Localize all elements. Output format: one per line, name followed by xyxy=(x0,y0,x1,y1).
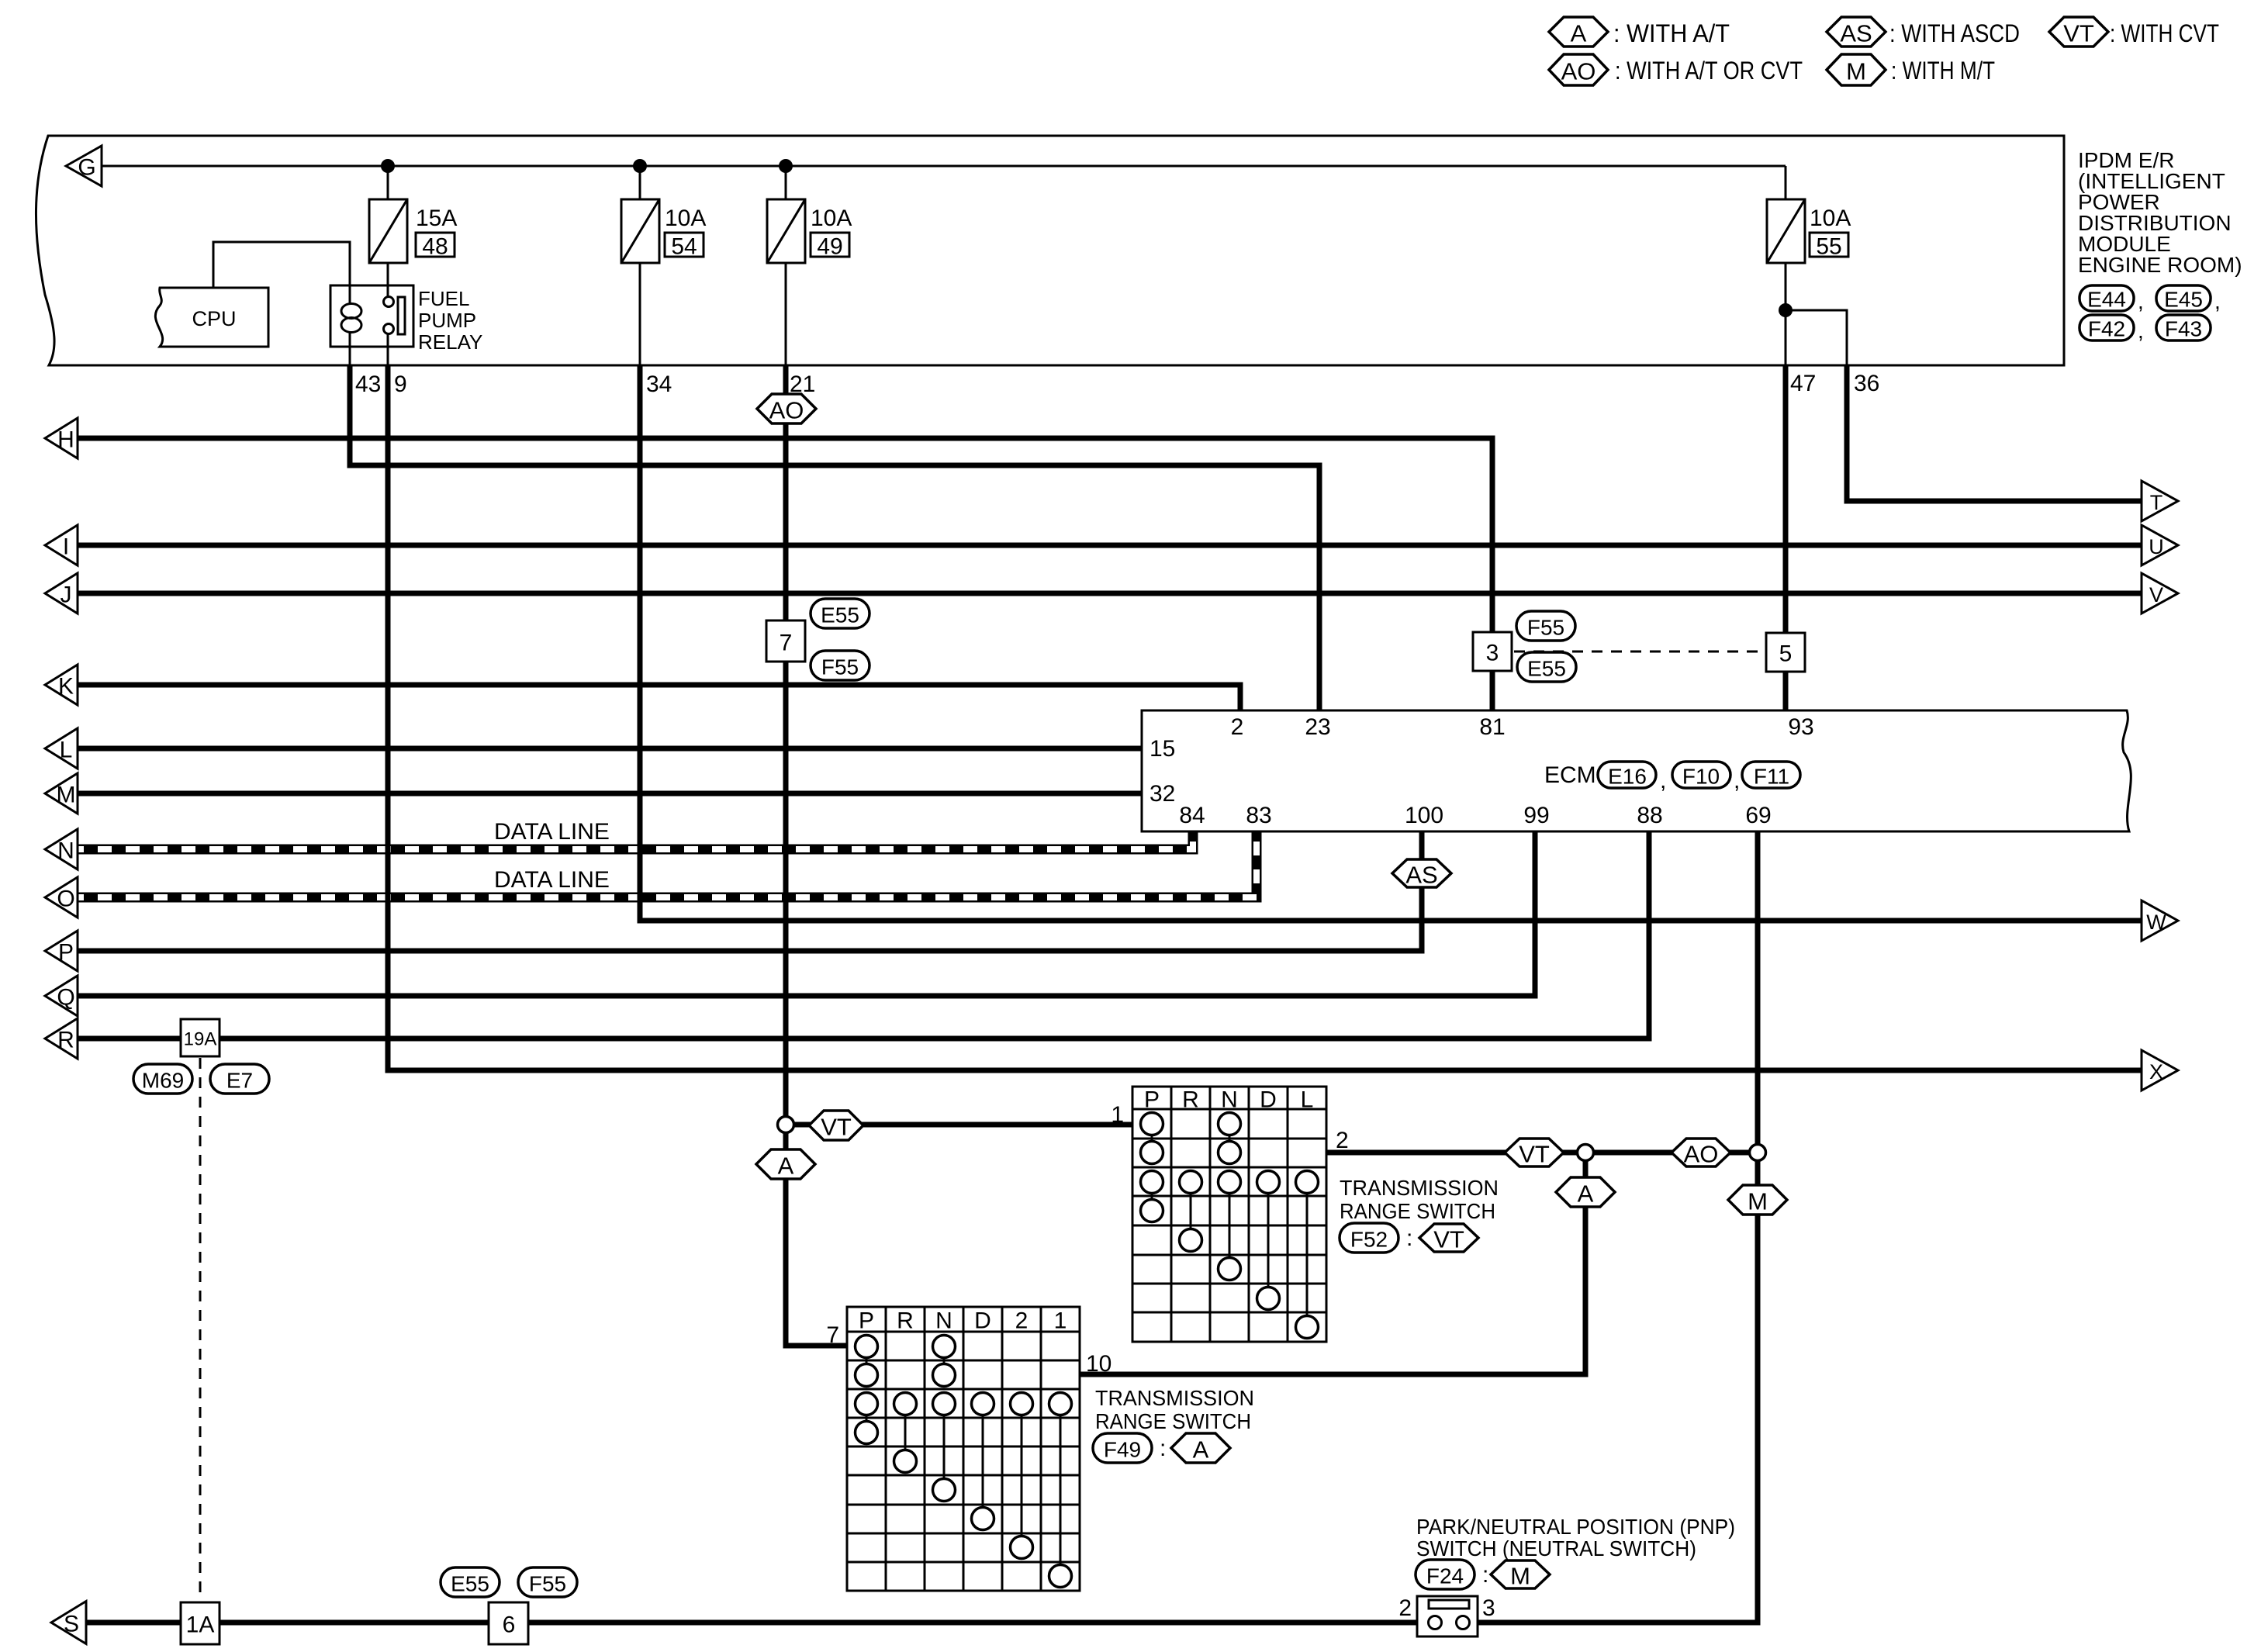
svg-text:DATA LINE: DATA LINE xyxy=(494,819,610,845)
IPDM comma 1 xyxy=(2138,289,2144,313)
svg-text:9: 9 xyxy=(394,372,407,397)
ECM pin 15 label xyxy=(1150,736,1175,762)
junction circle M branch xyxy=(1750,1145,1766,1161)
dashed link 19A to 1A xyxy=(199,1058,202,1601)
svg-text:10A: 10A xyxy=(811,206,852,231)
svg-text::: : xyxy=(1406,1225,1412,1251)
svg-text:U: U xyxy=(2149,535,2164,558)
svg-text:A: A xyxy=(1193,1436,1209,1464)
svg-text:84: 84 xyxy=(1179,803,1205,828)
svg-text::: : xyxy=(1160,1436,1166,1461)
svg-text:RANGE SWITCH: RANGE SWITCH xyxy=(1340,1199,1495,1223)
svg-text:M: M xyxy=(1748,1188,1768,1215)
M hexagon at PNP label xyxy=(1491,1560,1550,1590)
arrow S xyxy=(51,1602,86,1644)
wire junction to transmission range switch F49 pin 7 xyxy=(786,1125,847,1346)
pin 9 label xyxy=(394,372,407,397)
legend VT text xyxy=(2110,19,2219,47)
svg-text:55: 55 xyxy=(1816,234,1841,260)
svg-text:R: R xyxy=(1182,1087,1199,1113)
M hexagon on branch xyxy=(1728,1185,1787,1215)
PNP connector F24 xyxy=(1416,1560,1474,1589)
svg-text:DATA LINE: DATA LINE xyxy=(494,867,610,893)
arrow I xyxy=(45,525,78,565)
svg-text:6: 6 xyxy=(503,1612,516,1638)
PNP pin 2 label xyxy=(1398,1595,1412,1621)
svg-text:N: N xyxy=(57,838,74,864)
wire relay coil to pin 43 xyxy=(349,331,351,365)
fuse 48 15A xyxy=(369,199,457,263)
arrow K xyxy=(45,665,78,705)
AO hexagon on branch xyxy=(1672,1139,1730,1168)
ECM pin 83 label xyxy=(1246,803,1271,828)
svg-text:M: M xyxy=(1846,58,1866,85)
wire H to ECM pin 81 xyxy=(77,438,1492,710)
svg-text:81: 81 xyxy=(1479,714,1505,740)
F52 name text xyxy=(1340,1176,1499,1223)
connector E55 at box 3 xyxy=(1517,652,1576,682)
svg-text:,: , xyxy=(2138,319,2144,343)
svg-text:1: 1 xyxy=(1054,1308,1067,1334)
svg-text:R: R xyxy=(57,1028,74,1053)
svg-text:E16: E16 xyxy=(1608,765,1647,789)
svg-text:: WITH A/T OR CVT: : WITH A/T OR CVT xyxy=(1615,57,1803,85)
wire N data line (ECM 84 to N) xyxy=(77,831,1193,849)
F49 connector oval xyxy=(1093,1433,1152,1463)
junction dot fuse 48 xyxy=(381,159,395,173)
wire M to ECM pin 32 xyxy=(77,791,1142,797)
legend A text xyxy=(1613,19,1730,47)
svg-text:D: D xyxy=(974,1308,991,1334)
pin 34 label xyxy=(646,372,672,397)
svg-text:36: 36 xyxy=(1854,371,1879,396)
svg-text:M69: M69 xyxy=(142,1069,184,1093)
F52 pin 1 label xyxy=(1111,1102,1124,1128)
svg-text:M: M xyxy=(1510,1563,1530,1590)
IPDM name text xyxy=(2078,148,2242,277)
svg-text:E45: E45 xyxy=(2164,288,2203,312)
svg-text:1A: 1A xyxy=(186,1612,215,1638)
wire IPDM 34 to W xyxy=(640,365,2143,921)
arrow R xyxy=(45,1018,78,1059)
connector F55 at box 3 xyxy=(1516,611,1575,641)
svg-text:W: W xyxy=(2146,911,2166,934)
svg-text:L: L xyxy=(1301,1087,1314,1113)
AS hexagon below ECM pin 100 xyxy=(1392,859,1451,889)
connector E55 at box 7 xyxy=(811,599,869,628)
A hexagon at F49 label xyxy=(1171,1433,1230,1464)
svg-text:K: K xyxy=(58,674,74,700)
connector M69 xyxy=(133,1064,192,1094)
fuse 55 10A xyxy=(1767,199,1851,263)
wire CPU to relay coil xyxy=(213,242,350,304)
wire R to ECM pin 88 xyxy=(77,831,1649,1039)
svg-text:A: A xyxy=(1571,20,1587,47)
svg-text:AS: AS xyxy=(1405,862,1437,889)
pin 21 label xyxy=(790,372,815,397)
svg-text:RANGE SWITCH: RANGE SWITCH xyxy=(1095,1409,1251,1433)
arrow U xyxy=(2142,525,2178,565)
arrow G xyxy=(66,146,102,186)
svg-text:F55: F55 xyxy=(529,1572,566,1596)
svg-text:5: 5 xyxy=(1779,641,1793,667)
wire relay contact to pin 9 xyxy=(387,334,389,365)
ECM pin 84 label xyxy=(1179,803,1205,828)
svg-text:VT: VT xyxy=(821,1114,852,1141)
fuel pump relay contact xyxy=(384,297,406,335)
IPDM connector E45 xyxy=(2156,285,2211,312)
wire K to ECM pin 2 xyxy=(77,685,1240,710)
svg-text:E7: E7 xyxy=(226,1069,253,1093)
ECM pin 69 label xyxy=(1745,803,1771,828)
svg-text:E55: E55 xyxy=(451,1572,489,1596)
svg-text:T: T xyxy=(2150,491,2163,514)
PNP switch name text xyxy=(1416,1515,1735,1560)
wire fuse 48 feed xyxy=(387,166,389,199)
VT hexagon at F52 pin 1 xyxy=(809,1111,863,1141)
legend M symbol xyxy=(1827,54,1886,85)
wire fuse 49 to pin 21 xyxy=(785,263,787,365)
svg-text:83: 83 xyxy=(1246,803,1271,828)
svg-text:15A: 15A xyxy=(416,206,457,231)
svg-text:: WITH CVT: : WITH CVT xyxy=(2110,19,2219,47)
ECM name text xyxy=(1544,762,1596,788)
wire L to ECM pin 15 xyxy=(77,746,1142,752)
svg-text:54: 54 xyxy=(671,234,697,260)
wire IPDM 36 to T xyxy=(1847,365,2143,501)
dashed link 3 to 5 xyxy=(1514,651,1764,653)
F52 connector oval xyxy=(1340,1223,1398,1253)
svg-text:E55: E55 xyxy=(1527,657,1566,681)
arrow V xyxy=(2142,573,2178,613)
wire G bus xyxy=(102,165,1786,168)
svg-text:N: N xyxy=(935,1308,952,1334)
svg-text:47: 47 xyxy=(1790,371,1816,396)
svg-text:F10: F10 xyxy=(1682,765,1720,789)
IPDM E/R box xyxy=(36,136,2064,365)
DATA LINE text O xyxy=(494,867,610,893)
connector E55 at box 6 xyxy=(441,1567,500,1597)
arrow O xyxy=(45,877,78,918)
svg-text:F43: F43 xyxy=(2165,317,2202,341)
svg-text:7: 7 xyxy=(826,1322,839,1348)
legend M text xyxy=(1891,57,1995,85)
svg-text:,: , xyxy=(1660,768,1666,793)
svg-text:,: , xyxy=(2214,289,2221,313)
svg-text:99: 99 xyxy=(1523,803,1549,828)
svg-text:TRANSMISSION: TRANSMISSION xyxy=(1095,1386,1254,1410)
wire S to PNP switch xyxy=(86,1620,1428,1626)
svg-text:3: 3 xyxy=(1486,641,1499,666)
svg-text:SWITCH (NEUTRAL SWITCH): SWITCH (NEUTRAL SWITCH) xyxy=(1416,1536,1696,1560)
svg-text:M: M xyxy=(57,783,76,808)
connector F55 at box 7 xyxy=(811,651,869,680)
legend AO text xyxy=(1615,57,1803,85)
wire junction to transmission range switch F52 pin 1 xyxy=(786,1122,1132,1128)
svg-text:49: 49 xyxy=(817,234,842,260)
wire fuse 48 to relay contact xyxy=(387,263,389,297)
svg-text:E44: E44 xyxy=(2087,288,2126,312)
svg-text:PUMP: PUMP xyxy=(418,309,476,332)
svg-text:F42: F42 xyxy=(2088,317,2125,341)
svg-text:CPU: CPU xyxy=(192,307,236,330)
svg-text:X: X xyxy=(2149,1060,2163,1083)
connector box 1A xyxy=(181,1602,220,1644)
F49 pin 10 label xyxy=(1086,1351,1111,1377)
svg-text:88: 88 xyxy=(1637,803,1662,828)
svg-text:AS: AS xyxy=(1840,20,1872,47)
wire A branch to F49 pin 10 xyxy=(1080,1153,1585,1374)
svg-text:N: N xyxy=(1221,1087,1238,1113)
svg-text:7: 7 xyxy=(780,631,793,656)
svg-text:10: 10 xyxy=(1086,1351,1111,1377)
svg-text:10A: 10A xyxy=(665,206,706,231)
svg-text:19A: 19A xyxy=(184,1029,217,1050)
svg-text:H: H xyxy=(57,427,74,453)
svg-text:2: 2 xyxy=(1015,1308,1029,1334)
F49 pin 7 label xyxy=(826,1322,839,1348)
arrow N xyxy=(45,829,78,869)
wire fuse 54 feed xyxy=(639,166,641,199)
junction circle A branch xyxy=(1578,1145,1594,1161)
F49 name text xyxy=(1095,1386,1254,1433)
wire O data line (ECM 83 to O) xyxy=(77,831,1257,897)
ECM comma 1 xyxy=(1660,768,1666,793)
wire ECM pin 69 / M branch to PNP switch xyxy=(1470,831,1758,1623)
arrow W xyxy=(2142,900,2178,941)
wire Q to ECM pin 99 xyxy=(77,831,1535,996)
svg-text:F24: F24 xyxy=(1426,1564,1464,1588)
ECM box xyxy=(1142,710,2131,831)
connector box 3 xyxy=(1473,632,1512,671)
IPDM connector F43 xyxy=(2156,315,2211,341)
connector box 6 xyxy=(489,1602,528,1644)
svg-text:15: 15 xyxy=(1150,736,1175,762)
wire fuse 55 feed xyxy=(1785,166,1787,199)
wire IPDM 9 to X xyxy=(388,365,2143,1070)
svg-text:3: 3 xyxy=(1482,1595,1495,1621)
ECM pin 23 label xyxy=(1305,714,1330,740)
ECM comma 2 xyxy=(1734,768,1740,793)
svg-text:D: D xyxy=(1260,1087,1277,1113)
svg-text:32: 32 xyxy=(1150,781,1175,807)
IPDM connector E44 xyxy=(2079,285,2134,312)
ECM pin 2 label xyxy=(1231,714,1244,740)
svg-text:VT: VT xyxy=(2063,20,2094,47)
IPDM connector F42 xyxy=(2079,315,2134,341)
svg-text:AO: AO xyxy=(1684,1141,1719,1168)
svg-text:48: 48 xyxy=(422,234,448,260)
F49 colon xyxy=(1160,1436,1166,1461)
wire P to ECM pin 100 xyxy=(77,831,1422,951)
transmission range switch F52 grid xyxy=(1132,1087,1326,1342)
svg-text:AO: AO xyxy=(769,397,804,424)
arrow Q xyxy=(45,976,78,1016)
svg-text:O: O xyxy=(57,886,74,912)
svg-text:2: 2 xyxy=(1336,1128,1349,1153)
svg-text:69: 69 xyxy=(1745,803,1771,828)
connector box 19A xyxy=(181,1019,220,1056)
junction dot pin 36 branch xyxy=(1779,303,1793,317)
fuel pump relay label xyxy=(418,287,482,354)
svg-text:2: 2 xyxy=(1398,1595,1412,1621)
ECM connector F10 xyxy=(1672,762,1730,789)
svg-text:G: G xyxy=(78,155,95,181)
arrow H xyxy=(45,418,78,458)
svg-text:V: V xyxy=(2149,583,2163,607)
svg-text:,: , xyxy=(2138,289,2144,313)
connector box 5 xyxy=(1766,633,1805,672)
legend AS text xyxy=(1889,19,2020,47)
transmission range switch F49 grid xyxy=(847,1307,1080,1591)
ECM pin 81 label xyxy=(1479,714,1505,740)
F52 pin 2 label xyxy=(1336,1128,1349,1153)
svg-text:A: A xyxy=(778,1153,794,1180)
connector E7 xyxy=(210,1064,269,1094)
svg-text:RELAY: RELAY xyxy=(418,330,482,354)
legend A symbol xyxy=(1549,17,1608,47)
wire F52 pin 2 to junctions xyxy=(1326,1150,1758,1156)
ECM pin 99 label xyxy=(1523,803,1549,828)
svg-text:PARK/NEUTRAL POSITION (PNP): PARK/NEUTRAL POSITION (PNP) xyxy=(1416,1515,1735,1539)
wire fuse 49 feed xyxy=(785,166,787,199)
legend VT symbol xyxy=(2049,17,2108,47)
wire I to U xyxy=(77,543,2143,548)
pin 36 label xyxy=(1854,371,1879,396)
junction circle A/VT branch xyxy=(778,1117,794,1133)
wire IPDM 47 to ECM pin 93 xyxy=(1783,365,1789,710)
svg-text:TRANSMISSION: TRANSMISSION xyxy=(1340,1176,1499,1200)
arrow X xyxy=(2142,1050,2178,1090)
AO hexagon below pin 21 xyxy=(757,394,816,424)
DATA LINE text N xyxy=(494,819,610,845)
svg-text:F55: F55 xyxy=(821,655,859,679)
CPU box xyxy=(155,288,268,347)
pin 43 label xyxy=(355,372,381,397)
wire fuse 54 to pin 34 xyxy=(639,263,641,365)
IPDM comma 2 xyxy=(2214,289,2221,313)
svg-text:23: 23 xyxy=(1305,714,1330,740)
svg-text:: WITH M/T: : WITH M/T xyxy=(1891,57,1995,85)
svg-text:P: P xyxy=(1144,1087,1160,1113)
svg-text:10A: 10A xyxy=(1810,206,1851,231)
svg-text:2: 2 xyxy=(1231,714,1244,740)
svg-text:100: 100 xyxy=(1405,803,1443,828)
svg-text:P: P xyxy=(58,940,74,966)
pin 47 label xyxy=(1790,371,1816,396)
VT hexagon at F52 pin 2 xyxy=(1505,1139,1564,1168)
ECM pin 88 label xyxy=(1637,803,1662,828)
svg-text:F55: F55 xyxy=(1527,616,1564,640)
F52 colon xyxy=(1406,1225,1412,1251)
ECM pin 100 label xyxy=(1405,803,1443,828)
svg-text:P: P xyxy=(859,1308,874,1334)
arrow T xyxy=(2142,481,2178,521)
svg-text:L: L xyxy=(60,738,73,763)
arrow L xyxy=(45,728,78,769)
wire fuse 55 to pin 47 xyxy=(1785,263,1787,365)
connector box 7 xyxy=(766,620,805,662)
wire IPDM 21 to junction xyxy=(783,365,789,1125)
fuse 49 10A xyxy=(767,199,852,263)
svg-text:R: R xyxy=(897,1308,914,1334)
svg-text:F11: F11 xyxy=(1754,765,1789,789)
svg-text:43: 43 xyxy=(355,372,381,397)
junction dot fuse 49 xyxy=(779,159,793,173)
svg-text:S: S xyxy=(64,1612,79,1637)
wire IPDM 43 to ECM pin 23 xyxy=(350,365,1319,710)
VT hexagon at F52 label xyxy=(1419,1224,1478,1253)
arrow P xyxy=(45,931,78,971)
svg-text:93: 93 xyxy=(1788,714,1813,740)
svg-text:FUEL: FUEL xyxy=(418,287,469,310)
svg-text:F49: F49 xyxy=(1104,1438,1141,1462)
svg-text:E55: E55 xyxy=(821,603,859,627)
svg-text:A: A xyxy=(1578,1180,1594,1208)
svg-text:AO: AO xyxy=(1561,58,1596,85)
junction dot fuse 54 xyxy=(633,159,647,173)
ECM connector E16 xyxy=(1598,762,1656,789)
svg-text:F52: F52 xyxy=(1350,1228,1388,1252)
svg-text:I: I xyxy=(63,534,69,560)
svg-text:: WITH A/T: : WITH A/T xyxy=(1613,19,1730,47)
fuse 54 10A xyxy=(621,199,706,263)
A hexagon on branch xyxy=(1556,1177,1615,1208)
svg-text:J: J xyxy=(61,582,72,608)
ECM pin 93 label xyxy=(1788,714,1813,740)
svg-text:VT: VT xyxy=(1519,1141,1550,1168)
PNP pin 3 label xyxy=(1482,1595,1495,1621)
svg-text:Q: Q xyxy=(57,985,74,1011)
fuel pump relay coil xyxy=(341,304,361,333)
ECM connector F11 xyxy=(1742,762,1800,789)
PNP colon xyxy=(1482,1562,1488,1588)
wire J to V xyxy=(77,591,2143,596)
IPDM comma 3 xyxy=(2138,319,2144,343)
legend AS symbol xyxy=(1827,17,1886,47)
svg-text:34: 34 xyxy=(646,372,672,397)
fuel pump relay box xyxy=(330,285,413,347)
PNP switch symbol xyxy=(1417,1596,1478,1636)
svg-text:,: , xyxy=(1734,768,1740,793)
arrow M xyxy=(45,773,78,814)
svg-text::: : xyxy=(1482,1562,1488,1588)
ECM pin 32 label xyxy=(1150,781,1175,807)
legend AO symbol xyxy=(1549,54,1608,85)
wire fuse 55 branch to pin 36 xyxy=(1786,310,1847,365)
A hexagon below junction xyxy=(756,1149,815,1180)
arrow J xyxy=(45,573,78,613)
svg-text:1: 1 xyxy=(1111,1102,1124,1128)
connector F55 at box 6 xyxy=(518,1567,577,1597)
svg-text:ENGINE ROOM): ENGINE ROOM) xyxy=(2078,253,2242,277)
svg-text:ECM: ECM xyxy=(1544,762,1596,788)
svg-text:VT: VT xyxy=(1433,1226,1464,1253)
svg-text:: WITH ASCD: : WITH ASCD xyxy=(1889,19,2020,47)
